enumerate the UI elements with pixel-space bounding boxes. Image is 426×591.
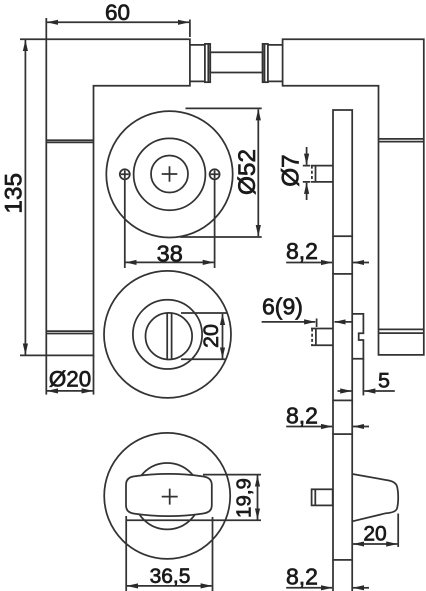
extension between side views 2-3 — [332, 400, 334, 434]
dimension 8,2 no.3 right arrow — [353, 587, 369, 589]
svg-text:5: 5 — [378, 369, 390, 393]
side view 1 pin dashed line — [311, 166, 313, 182]
rosette 1 outer circle — [106, 111, 232, 237]
dimension 38 line — [126, 261, 214, 263]
dimension D52 extension bottom — [180, 236, 262, 238]
svg-text:8,2: 8,2 — [286, 403, 318, 429]
right neck — [268, 45, 283, 82]
dimension 60 extension line right — [189, 20, 191, 38]
dimension 20 line (rosette 2) — [222, 314, 224, 359]
svg-text:Ø7: Ø7 — [278, 154, 305, 186]
side view 1 pin — [311, 166, 333, 182]
rosette 2 middle circle — [133, 300, 202, 369]
side view 2 notched catch — [352, 314, 363, 359]
dimension 6(9) right arrow — [335, 321, 352, 323]
dimension 135 line — [24, 40, 26, 355]
rosette 3 middle circle — [134, 463, 200, 529]
dimension D7 arrows — [306, 147, 308, 165]
left grip end cap — [46, 330, 93, 332]
svg-text:8,2: 8,2 — [286, 564, 318, 590]
right collar ring — [263, 44, 268, 82]
screw left — [120, 169, 130, 179]
svg-text:135: 135 — [1, 173, 28, 214]
dimension 5 extension — [362, 359, 364, 396]
dimension D20 extensions — [45, 355, 47, 394]
side view 1 rosette plate — [333, 110, 352, 236]
dimension 8,2 no.3 leader — [286, 587, 332, 589]
dimension 135 extension top — [20, 38, 46, 40]
dimension 135 extension bottom — [20, 354, 46, 356]
rosette 2 slot lines — [166, 313, 168, 358]
svg-text:Ø52: Ø52 — [234, 149, 261, 195]
rosette 1 middle circle — [134, 138, 206, 210]
right grip seam — [379, 138, 424, 140]
side view 2 pin — [311, 329, 333, 346]
dimension D7 ticks — [303, 166, 311, 182]
lever handle right outline — [283, 39, 424, 355]
svg-text:6(9): 6(9) — [262, 294, 303, 320]
svg-text:8,2: 8,2 — [286, 238, 318, 264]
extension below side view 3 — [332, 560, 334, 591]
left grip seam — [46, 139, 93, 141]
rosette 1 centre cross — [162, 166, 178, 182]
svg-text:Ø20: Ø20 — [49, 367, 91, 392]
dimension 60 line — [47, 21, 189, 23]
rosette 1 spindle hole — [151, 156, 188, 193]
svg-text:60: 60 — [105, 0, 130, 25]
side view 3 pin line — [314, 489, 316, 505]
dimension D52 extension top — [186, 107, 262, 109]
lever handle left outline — [46, 39, 190, 355]
dimension 19,9 line — [257, 475, 259, 519]
side view 3 thumb knob — [352, 474, 398, 521]
left collar ring — [205, 44, 210, 82]
dimension 20 extensions (rosette 2) — [181, 312, 227, 314]
dimension 5 arrows — [338, 390, 352, 392]
dimension 6(9) leader arrow — [262, 321, 316, 323]
spindle — [210, 52, 262, 72]
dimension 19,9 extension top — [203, 474, 261, 476]
dimension 20 extension (side 3) — [397, 514, 399, 548]
side view 3 rosette plate — [333, 434, 352, 560]
svg-text:36,5: 36,5 — [150, 565, 191, 588]
dimension D20 line — [47, 390, 93, 392]
dimension 8,2 no.1 leader — [286, 262, 332, 264]
dimension 20 line (side 3) — [353, 543, 397, 545]
side view 3 pin — [312, 489, 333, 505]
dimension 36,5 line — [127, 585, 212, 587]
svg-text:19,9: 19,9 — [233, 478, 256, 518]
side view 2 pin dashed line — [311, 329, 313, 346]
dimension 8,2 no.2 right arrow — [353, 426, 369, 428]
rosette 2 turn knob circle — [146, 313, 193, 360]
svg-text:20: 20 — [199, 324, 223, 348]
svg-text:20: 20 — [363, 523, 386, 546]
dimension 60 extension line left — [45, 18, 47, 39]
dimension 38 extension lines — [124, 180, 126, 268]
dimension 36,5 extensions — [125, 516, 127, 591]
right grip end cap — [379, 328, 424, 330]
svg-text:38: 38 — [157, 240, 183, 266]
dimension 8,2 no.1 right arrow — [353, 262, 369, 264]
dimension 8,2 no.2 leader — [286, 426, 332, 428]
dimension D52 line — [257, 109, 259, 236]
side view 2 rosette plate — [333, 274, 352, 401]
rosette 2 outer circle — [104, 271, 231, 398]
rosette 3 outer circle — [104, 433, 230, 559]
left neck — [190, 45, 205, 82]
extension between side views 1-2 — [332, 236, 334, 274]
dimension 19,9 extension bottom — [126, 519, 261, 521]
rosette 3 knob cross — [162, 489, 178, 505]
dimension 6(9) tick — [316, 319, 318, 328]
screw right — [210, 169, 220, 179]
rosette 3 thumb knob — [126, 474, 212, 516]
